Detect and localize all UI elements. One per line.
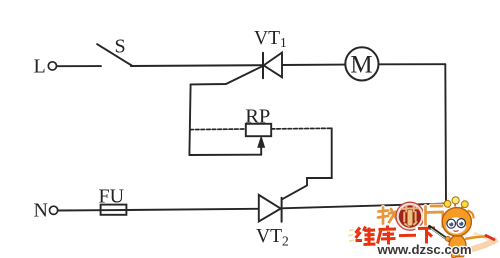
wire	[282, 204, 446, 209]
thyristor VT1	[254, 28, 287, 78]
svg-text:S: S	[115, 35, 126, 57]
text 片	[426, 206, 443, 227]
circle with chip	[396, 202, 424, 230]
fuse FU	[99, 186, 127, 215]
wire VT1 gate	[191, 66, 264, 85]
svg-text:VT2: VT2	[256, 226, 289, 248]
watermark logo dzsc	[349, 197, 497, 258]
wire	[131, 64, 263, 67]
svg-text:L: L	[34, 56, 46, 78]
svg-text:RP: RP	[245, 106, 270, 128]
wire dashed	[271, 127, 332, 130]
wire	[127, 209, 259, 210]
terminal L	[34, 56, 57, 78]
wire VT2 gate	[282, 128, 332, 199]
wire	[58, 209, 101, 211]
motor M	[345, 47, 378, 80]
wire	[189, 154, 261, 156]
thyristor VT2	[256, 195, 289, 249]
text 维库一下 red	[356, 226, 436, 245]
svg-text:N: N	[34, 200, 48, 222]
svg-text:FU: FU	[99, 186, 125, 208]
mascot	[430, 197, 495, 258]
svg-text:VT1: VT1	[254, 28, 287, 50]
svg-text:M: M	[350, 51, 372, 78]
potentiometer RP	[245, 106, 271, 155]
wire	[189, 84, 190, 155]
text 找	[378, 208, 398, 225]
wire	[282, 64, 345, 66]
wire	[444, 64, 447, 203]
wire	[57, 65, 101, 67]
svg-text:www.dzsc.com: www.dzsc.com	[377, 242, 472, 257]
wire	[379, 63, 446, 65]
swoosh	[466, 239, 497, 250]
wire dashed	[190, 128, 246, 131]
switch S	[97, 35, 132, 66]
terminal N	[34, 200, 58, 222]
paint splashes	[349, 230, 353, 241]
